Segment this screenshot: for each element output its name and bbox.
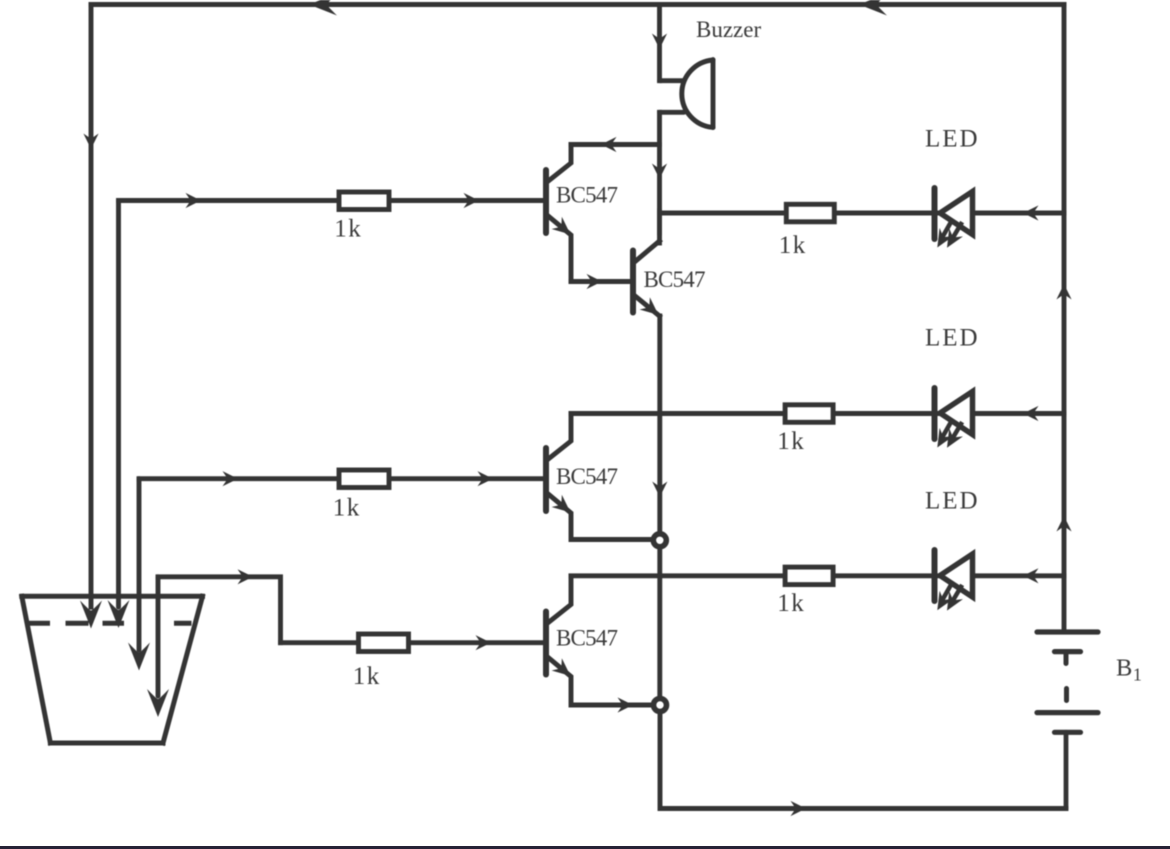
arrow row3 right 1 bbox=[223, 471, 239, 486]
svg-text:LED: LED bbox=[925, 325, 980, 352]
resistor R2 bbox=[339, 470, 389, 488]
arrow LED1 row left bbox=[1023, 205, 1039, 220]
buzzer bbox=[660, 60, 714, 128]
svg-text:1k: 1k bbox=[353, 663, 381, 690]
wire Q1 collector horizontal bbox=[571, 142, 660, 147]
svg-text:B1: B1 bbox=[1116, 655, 1142, 685]
wire node A to node B bbox=[657, 550, 662, 697]
arrow probe4 down bbox=[147, 689, 169, 717]
transistor Q4 BC547 bbox=[546, 576, 651, 705]
svg-text:LED: LED bbox=[925, 126, 980, 153]
wire probe2 corner to R1 bbox=[119, 198, 337, 203]
wire left rail bbox=[89, 5, 94, 608]
arrow right-rail up 1 bbox=[1056, 284, 1071, 300]
arrow Q3 emitter bbox=[552, 495, 576, 519]
arrow right-rail up 2 bbox=[1056, 516, 1071, 532]
wire probe4 bbox=[156, 577, 161, 696]
arrow Q1e-Q2b right bbox=[587, 274, 603, 289]
LED D3 bbox=[935, 550, 973, 601]
resistor R4 (LED1 row) bbox=[786, 204, 834, 222]
transistor Q3 BC547 bbox=[546, 414, 651, 540]
wire probe2 bbox=[116, 201, 121, 608]
arrow bottom rail right bbox=[791, 801, 807, 816]
node A open junction bbox=[653, 534, 666, 547]
wire probe4 drop to R3 bbox=[281, 640, 357, 645]
arrow left-rail down bbox=[83, 134, 98, 150]
arrow top-rail left 2 bbox=[859, 0, 887, 16]
arrow LED2 row left bbox=[1023, 406, 1039, 421]
resistor R6 bbox=[785, 567, 833, 585]
arrow top-rail left 1 bbox=[309, 0, 337, 16]
wire probe3 bbox=[137, 479, 142, 650]
wire LED3 row right (R6 to LED3 to right rail) bbox=[835, 573, 1064, 578]
wire buzzer to darlington collector node bbox=[657, 112, 662, 233]
arrow LED2 flash 2 bbox=[940, 428, 963, 452]
svg-text:BC547: BC547 bbox=[556, 626, 617, 651]
arrow Q4 emitter bbox=[552, 658, 576, 682]
LED D2 bbox=[935, 388, 973, 439]
svg-text:1k: 1k bbox=[334, 216, 362, 243]
wire node B to bottom rail bbox=[660, 714, 1066, 808]
resistor R3 bbox=[359, 634, 409, 652]
arrow probe4 run right bbox=[238, 569, 254, 584]
wire Q2 emitter down to node A bbox=[657, 316, 662, 532]
wire right rail bbox=[1062, 5, 1067, 633]
wire probe3 corner to R2 bbox=[139, 476, 337, 481]
arrow row3 right 2 bbox=[478, 471, 494, 486]
arrow LED2 flash 1 bbox=[930, 428, 953, 452]
svg-text:Buzzer: Buzzer bbox=[696, 17, 761, 42]
transistor Q1 BC547 bbox=[546, 145, 571, 282]
wire R3 to Q4 base bbox=[411, 640, 543, 645]
svg-text:BC547: BC547 bbox=[644, 267, 705, 292]
arrow LED3 row left bbox=[1023, 568, 1039, 583]
wire main vertical Q2 collector segment bbox=[657, 211, 662, 243]
arrow row1 right 2 bbox=[464, 193, 480, 208]
arrow buzzer feed down bbox=[652, 34, 667, 50]
transistor Q2 BC547 bbox=[633, 241, 660, 316]
svg-text:1k: 1k bbox=[779, 232, 807, 259]
wire LED2 row left (Q3 collector to R5) bbox=[571, 411, 783, 416]
arrow Q4 emitter wire right bbox=[618, 697, 634, 712]
arrow Q1 collector left bbox=[601, 137, 617, 152]
arrow LED1 flash 1 bbox=[930, 228, 953, 252]
arrow LED3 flash 2 bbox=[940, 591, 963, 615]
battery B1 bbox=[1037, 632, 1098, 809]
wire probe4 top run bbox=[158, 577, 281, 643]
svg-text:BC547: BC547 bbox=[556, 464, 617, 489]
wire Q1 emitter to Q2 base bbox=[571, 279, 630, 284]
svg-text:BC547: BC547 bbox=[556, 183, 617, 208]
svg-text:1k: 1k bbox=[777, 428, 805, 455]
LED D1 bbox=[935, 188, 973, 239]
resistor R1 bbox=[339, 192, 389, 210]
arrow Q2 emitter bbox=[640, 297, 664, 321]
arrow LED3 flash 1 bbox=[930, 591, 953, 615]
arrow row1 right 1 bbox=[186, 193, 202, 208]
arrow LED1 flash 2 bbox=[940, 228, 963, 252]
arrow probe2 down bbox=[108, 600, 130, 628]
arrow main vertical down 1 bbox=[652, 164, 667, 180]
resistor R5 bbox=[785, 405, 833, 423]
arrow main vertical down 2 bbox=[652, 482, 667, 498]
arrow probe3 down bbox=[128, 643, 150, 671]
page footer bar bbox=[0, 846, 1170, 849]
wire R1 to Q1 base bbox=[391, 198, 543, 203]
wire top rail bbox=[91, 2, 1064, 7]
wire LED3 row left (Q4 collector to R6) bbox=[571, 573, 783, 578]
water level dashed line bbox=[30, 621, 48, 626]
svg-text:1k: 1k bbox=[333, 495, 361, 522]
tank bbox=[22, 596, 203, 743]
wire LED2 row right (R5 to LED2 to right rail) bbox=[835, 411, 1064, 416]
arrow row4 right 2 bbox=[476, 635, 492, 650]
svg-text:LED: LED bbox=[925, 488, 980, 515]
wire R2 to Q3 base bbox=[391, 476, 543, 481]
svg-text:1k: 1k bbox=[777, 590, 805, 617]
arrow probe1 down bbox=[80, 601, 102, 629]
arrow Q1 emitter bbox=[552, 217, 576, 241]
node B open junction bbox=[654, 699, 667, 712]
wire LED1 row from main vertical bbox=[660, 211, 1065, 216]
wire buzzer feed from top rail bbox=[657, 5, 662, 81]
